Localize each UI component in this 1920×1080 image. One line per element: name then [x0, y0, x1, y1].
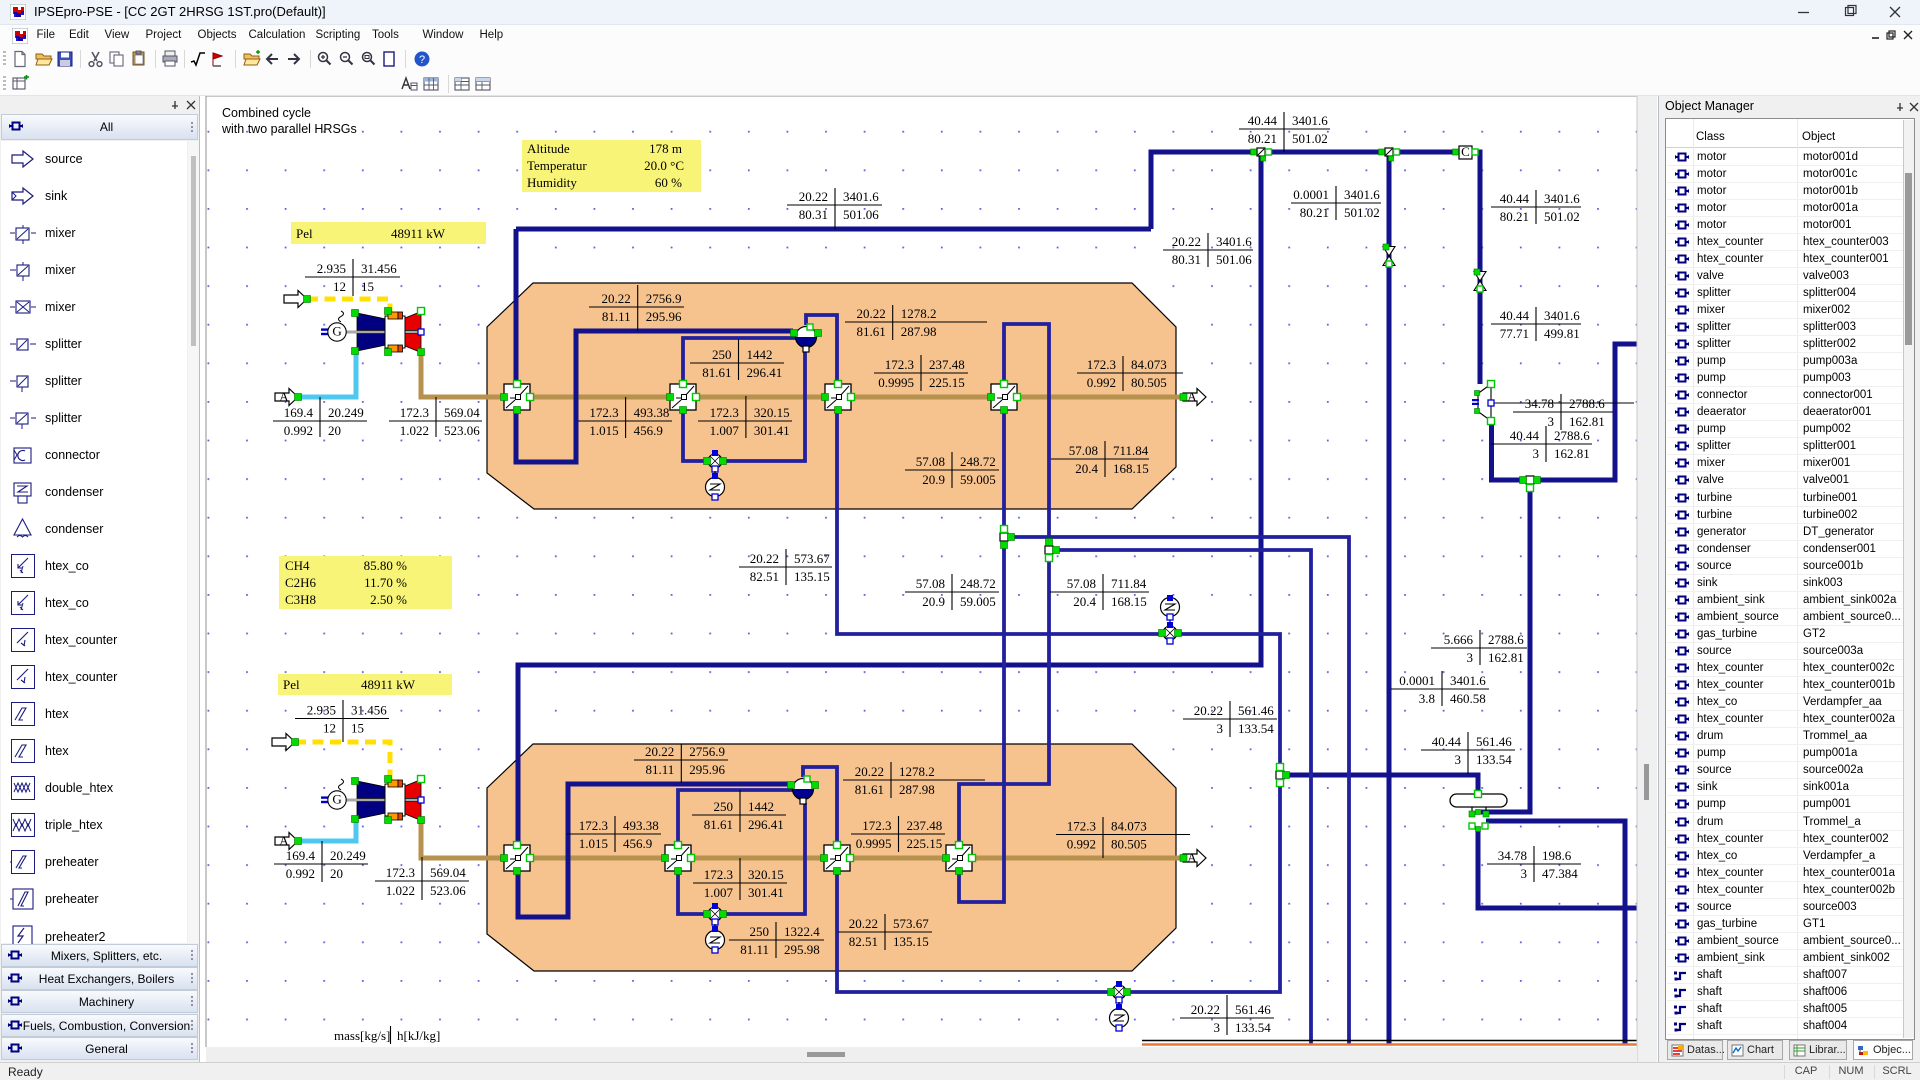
svg-text:11.70 %: 11.70 %	[364, 575, 407, 590]
svg-text:499.81: 499.81	[1544, 326, 1580, 341]
svg-text:523.06: 523.06	[444, 423, 480, 438]
svg-text:48911 kW: 48911 kW	[361, 677, 416, 692]
svg-text:172.3: 172.3	[862, 818, 891, 833]
svg-text:mass[kg/s]: mass[kg/s]	[334, 1028, 390, 1043]
svg-text:Pel: Pel	[296, 226, 313, 241]
svg-text:20.4: 20.4	[1075, 461, 1098, 476]
svg-text:561.46: 561.46	[1476, 734, 1512, 749]
svg-text:59.005: 59.005	[960, 594, 996, 609]
svg-text:287.98: 287.98	[899, 782, 935, 797]
svg-text:20.0 °C: 20.0 °C	[644, 158, 684, 173]
svg-text:561.46: 561.46	[1238, 703, 1274, 718]
svg-text:81.61: 81.61	[704, 817, 733, 832]
svg-text:3: 3	[1455, 752, 1462, 767]
svg-text:60 %: 60 %	[655, 175, 682, 190]
svg-text:20: 20	[328, 423, 341, 438]
svg-text:0.9995: 0.9995	[856, 836, 892, 851]
svg-text:Temperatur: Temperatur	[527, 158, 587, 173]
svg-text:40.44: 40.44	[1248, 113, 1278, 128]
svg-text:237.48: 237.48	[907, 818, 943, 833]
svg-text:5.666: 5.666	[1444, 632, 1474, 647]
svg-text:501.06: 501.06	[843, 207, 879, 222]
svg-text:493.38: 493.38	[623, 818, 659, 833]
svg-text:C: C	[1461, 144, 1470, 159]
svg-text:168.15: 168.15	[1113, 461, 1149, 476]
svg-text:3.8: 3.8	[1419, 691, 1435, 706]
svg-text:320.15: 320.15	[754, 405, 790, 420]
svg-text:20.9: 20.9	[922, 472, 945, 487]
svg-text:711.84: 711.84	[1113, 443, 1149, 458]
svg-text:20.22: 20.22	[849, 916, 878, 931]
svg-text:h[kJ/kg]: h[kJ/kg]	[397, 1028, 440, 1043]
svg-text:20.22: 20.22	[856, 306, 885, 321]
svg-text:178 m: 178 m	[649, 141, 682, 156]
svg-text:1322.4: 1322.4	[784, 924, 820, 939]
svg-text:501.02: 501.02	[1344, 205, 1380, 220]
svg-text:169.4: 169.4	[286, 848, 316, 863]
svg-text:34.78: 34.78	[1525, 396, 1554, 411]
svg-text:287.98: 287.98	[901, 324, 937, 339]
svg-text:81.61: 81.61	[856, 324, 885, 339]
svg-text:81.61: 81.61	[702, 365, 731, 380]
svg-text:172.3: 172.3	[1067, 819, 1096, 834]
svg-text:57.08: 57.08	[916, 576, 945, 591]
svg-text:1.015: 1.015	[579, 836, 608, 851]
svg-text:320.15: 320.15	[748, 867, 784, 882]
svg-text:40.44: 40.44	[1500, 191, 1530, 206]
svg-text:2788.6: 2788.6	[1488, 632, 1524, 647]
svg-text:Altitude: Altitude	[527, 141, 570, 156]
svg-text:Pel: Pel	[283, 677, 300, 692]
svg-text:0.0001: 0.0001	[1293, 187, 1329, 202]
svg-text:80.31: 80.31	[1172, 252, 1201, 267]
svg-text:20.249: 20.249	[328, 405, 364, 420]
svg-text:225.15: 225.15	[907, 836, 943, 851]
svg-text:0.992: 0.992	[1067, 837, 1096, 852]
svg-text:172.3: 172.3	[710, 405, 739, 420]
svg-text:2756.9: 2756.9	[689, 744, 725, 759]
svg-text:3: 3	[1467, 650, 1474, 665]
svg-text:168.15: 168.15	[1111, 594, 1147, 609]
svg-text:250: 250	[712, 347, 732, 362]
svg-text:1278.2: 1278.2	[901, 306, 937, 321]
svg-text:133.54: 133.54	[1238, 721, 1274, 736]
svg-text:15: 15	[351, 721, 364, 736]
svg-text:301.41: 301.41	[748, 885, 784, 900]
svg-text:20.22: 20.22	[1194, 703, 1223, 718]
svg-text:3: 3	[1548, 414, 1555, 429]
svg-text:59.005: 59.005	[960, 472, 996, 487]
svg-text:20.22: 20.22	[1172, 234, 1201, 249]
svg-text:3401.6: 3401.6	[1544, 191, 1580, 206]
svg-text:1.015: 1.015	[589, 423, 618, 438]
svg-text:80.31: 80.31	[799, 207, 828, 222]
svg-text:295.96: 295.96	[646, 309, 682, 324]
svg-text:with two parallel HRSGs: with two parallel HRSGs	[221, 122, 357, 136]
svg-text:G: G	[332, 791, 341, 806]
svg-text:15: 15	[361, 279, 374, 294]
svg-text:172.3: 172.3	[400, 405, 429, 420]
svg-text:20.22: 20.22	[855, 764, 884, 779]
svg-text:295.96: 295.96	[689, 762, 725, 777]
svg-text:80.21: 80.21	[1300, 205, 1329, 220]
svg-text:172.3: 172.3	[386, 865, 415, 880]
svg-text:501.02: 501.02	[1292, 131, 1328, 146]
svg-text:12: 12	[323, 721, 336, 736]
svg-text:81.61: 81.61	[855, 782, 884, 797]
svg-text:561.46: 561.46	[1235, 1002, 1271, 1017]
svg-text:3401.6: 3401.6	[843, 189, 879, 204]
svg-text:1.022: 1.022	[400, 423, 429, 438]
svg-text:3401.6: 3401.6	[1450, 673, 1486, 688]
svg-text:0.992: 0.992	[286, 866, 315, 881]
svg-text:3: 3	[1521, 866, 1528, 881]
svg-text:501.02: 501.02	[1544, 209, 1580, 224]
svg-text:34.78: 34.78	[1498, 848, 1527, 863]
svg-text:80.21: 80.21	[1248, 131, 1277, 146]
svg-text:456.9: 456.9	[634, 423, 663, 438]
svg-text:1278.2: 1278.2	[899, 764, 935, 779]
svg-text:711.84: 711.84	[1111, 576, 1147, 591]
svg-text:84.073: 84.073	[1111, 819, 1147, 834]
svg-text:20.22: 20.22	[645, 744, 674, 759]
svg-text:573.67: 573.67	[794, 551, 830, 566]
svg-text:0.992: 0.992	[1087, 375, 1116, 390]
svg-text:3401.6: 3401.6	[1216, 234, 1252, 249]
svg-text:G: G	[332, 323, 341, 338]
svg-text:3401.6: 3401.6	[1544, 308, 1580, 323]
svg-text:A: A	[279, 833, 289, 848]
svg-text:493.38: 493.38	[634, 405, 670, 420]
svg-text:31.456: 31.456	[361, 261, 397, 276]
svg-text:81.11: 81.11	[602, 309, 631, 324]
svg-text:2.935: 2.935	[307, 703, 336, 718]
svg-text:295.98: 295.98	[784, 942, 820, 957]
svg-text:2.935: 2.935	[317, 261, 346, 276]
svg-text:20.249: 20.249	[330, 848, 366, 863]
svg-text:3401.6: 3401.6	[1292, 113, 1328, 128]
svg-text:456.9: 456.9	[623, 836, 652, 851]
svg-text:1.022: 1.022	[386, 883, 415, 898]
svg-text:3: 3	[1214, 1020, 1221, 1035]
svg-text:250: 250	[714, 799, 734, 814]
svg-text:2.50 %: 2.50 %	[370, 592, 407, 607]
svg-text:12: 12	[333, 279, 346, 294]
svg-text:296.41: 296.41	[748, 817, 784, 832]
svg-text:A: A	[1187, 850, 1197, 865]
svg-text:84.073: 84.073	[1131, 357, 1167, 372]
svg-text:20.4: 20.4	[1073, 594, 1096, 609]
svg-text:569.04: 569.04	[444, 405, 480, 420]
svg-text:2756.9: 2756.9	[646, 291, 682, 306]
svg-text:20: 20	[330, 866, 343, 881]
svg-text:80.505: 80.505	[1111, 837, 1147, 852]
svg-text:2788.6: 2788.6	[1554, 428, 1590, 443]
svg-text:20.22: 20.22	[750, 551, 779, 566]
svg-text:31.456: 31.456	[351, 703, 387, 718]
svg-text:57.08: 57.08	[1067, 576, 1096, 591]
svg-text:169.4: 169.4	[284, 405, 314, 420]
svg-text:172.3: 172.3	[1087, 357, 1116, 372]
svg-text:248.72: 248.72	[960, 454, 996, 469]
svg-text:20.22: 20.22	[799, 189, 828, 204]
svg-text:?: ?	[419, 54, 425, 66]
svg-text:20.22: 20.22	[1191, 1002, 1220, 1017]
svg-text:82.51: 82.51	[750, 569, 779, 584]
svg-text:81.11: 81.11	[740, 942, 769, 957]
svg-text:296.41: 296.41	[747, 365, 783, 380]
svg-text:80.21: 80.21	[1500, 209, 1529, 224]
svg-text:573.67: 573.67	[893, 916, 929, 931]
svg-text:237.48: 237.48	[929, 357, 965, 372]
svg-text:47.384: 47.384	[1542, 866, 1578, 881]
svg-text:172.3: 172.3	[704, 867, 733, 882]
svg-text:77.71: 77.71	[1500, 326, 1529, 341]
svg-text:80.505: 80.505	[1131, 375, 1167, 390]
svg-text:135.15: 135.15	[794, 569, 830, 584]
svg-text:40.44: 40.44	[1432, 734, 1462, 749]
svg-text:3: 3	[1217, 721, 1224, 736]
svg-text:1442: 1442	[747, 347, 773, 362]
svg-text:3401.6: 3401.6	[1344, 187, 1380, 202]
svg-text:1442: 1442	[748, 799, 774, 814]
svg-text:133.54: 133.54	[1476, 752, 1512, 767]
svg-text:162.81: 162.81	[1554, 446, 1590, 461]
svg-text:250: 250	[750, 924, 770, 939]
svg-text:57.08: 57.08	[916, 454, 945, 469]
svg-text:CH4: CH4	[285, 558, 310, 573]
svg-text:460.58: 460.58	[1450, 691, 1486, 706]
svg-text:225.15: 225.15	[929, 375, 965, 390]
svg-text:301.41: 301.41	[754, 423, 790, 438]
svg-text:0.0001: 0.0001	[1399, 673, 1435, 688]
svg-text:C3H8: C3H8	[285, 592, 316, 607]
svg-text:82.51: 82.51	[849, 934, 878, 949]
svg-text:Humidity: Humidity	[527, 175, 577, 190]
svg-text:569.04: 569.04	[430, 865, 466, 880]
svg-text:2788.6: 2788.6	[1569, 396, 1605, 411]
svg-text:C2H6: C2H6	[285, 575, 317, 590]
svg-text:40.44: 40.44	[1510, 428, 1540, 443]
svg-text:162.81: 162.81	[1569, 414, 1605, 429]
svg-text:A: A	[1187, 389, 1197, 404]
svg-text:48911 kW: 48911 kW	[391, 226, 446, 241]
svg-text:20.9: 20.9	[922, 594, 945, 609]
svg-text:Combined cycle: Combined cycle	[222, 106, 311, 120]
svg-text:172.3: 172.3	[885, 357, 914, 372]
svg-text:40.44: 40.44	[1500, 308, 1530, 323]
svg-text:0.992: 0.992	[284, 423, 313, 438]
svg-text:135.15: 135.15	[893, 934, 929, 949]
svg-text:523.06: 523.06	[430, 883, 466, 898]
svg-text:20.22: 20.22	[601, 291, 630, 306]
svg-text:172.3: 172.3	[589, 405, 618, 420]
svg-text:81.11: 81.11	[646, 762, 675, 777]
svg-text:198.6: 198.6	[1542, 848, 1572, 863]
svg-text:0.9995: 0.9995	[878, 375, 914, 390]
svg-text:501.06: 501.06	[1216, 252, 1252, 267]
svg-text:85.80 %: 85.80 %	[364, 558, 408, 573]
svg-text:248.72: 248.72	[960, 576, 996, 591]
svg-text:172.3: 172.3	[579, 818, 608, 833]
svg-text:A: A	[279, 389, 289, 404]
svg-text:133.54: 133.54	[1235, 1020, 1271, 1035]
svg-text:57.08: 57.08	[1069, 443, 1098, 458]
svg-text:1.007: 1.007	[704, 885, 734, 900]
svg-text:3: 3	[1533, 446, 1540, 461]
svg-text:162.81: 162.81	[1488, 650, 1524, 665]
svg-text:1.007: 1.007	[710, 423, 740, 438]
